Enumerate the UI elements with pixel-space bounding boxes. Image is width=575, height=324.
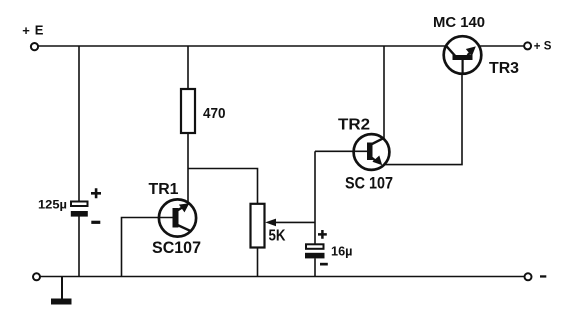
- ground bar: [51, 299, 72, 305]
- svg-text:TR3: TR3: [489, 60, 519, 77]
- minus mark bottom right: [540, 275, 546, 277]
- svg-text:16µ: 16µ: [331, 243, 353, 258]
- wire top rail right of TR3: [478, 45, 524, 47]
- svg-text:SC 107: SC 107: [345, 173, 393, 192]
- minus mark 125u: [91, 221, 100, 224]
- wire 125u top branch: [78, 46, 80, 202]
- terminal +E: [31, 43, 38, 50]
- transistor TR1 emitter diagonal: [177, 207, 184, 211]
- svg-text:MC 140: MC 140: [433, 14, 485, 31]
- terminal bottom left: [33, 273, 40, 280]
- transistor TR2 emitter diagonal: [372, 158, 377, 162]
- transistor TR1 emitter arrow: [179, 203, 189, 212]
- wire 16u bottom: [314, 258, 316, 276]
- svg-text:SC107: SC107: [152, 238, 201, 257]
- transistor TR3 base bar: [453, 55, 473, 60]
- svg-text:+: +: [22, 23, 30, 38]
- svg-text:5K: 5K: [269, 227, 286, 244]
- potentiometer 5K body: [251, 204, 265, 248]
- svg-text:125µ: 125µ: [38, 198, 67, 212]
- wire 125u bottom: [78, 217, 80, 277]
- transistor TR1 base bar: [173, 208, 179, 228]
- transistor TR3 body: [444, 36, 482, 74]
- transistor TR3 emitter arrow: [466, 46, 476, 56]
- transistor TR2 body: [354, 134, 390, 170]
- wire top rail left of TR3: [38, 45, 447, 47]
- wire TR1 base branch: [122, 218, 173, 277]
- capacitor C 125u bottom plate: [71, 211, 88, 217]
- transistor TR2 base bar: [367, 143, 373, 161]
- transistor TR2 collector diagonal: [371, 138, 384, 145]
- wire TR2 emitter to TR3 base: [385, 73, 463, 165]
- arrow pot wiper: [265, 219, 276, 227]
- ground stub: [61, 277, 63, 300]
- transistor TR3 collector diagonal: [446, 46, 456, 57]
- wire TR2 collector to rail: [383, 46, 385, 139]
- wire TR2 base: [315, 150, 367, 152]
- capacitor C 16u top plate: [306, 244, 324, 249]
- terminal +S: [524, 42, 531, 49]
- svg-text:+: +: [534, 41, 541, 53]
- plus mark 125u: [91, 188, 101, 198]
- capacitor C 16u bottom plate: [305, 253, 325, 259]
- transistor TR3 base lead: [462, 60, 464, 74]
- svg-text:S: S: [544, 40, 552, 52]
- plus mark 16u: [318, 230, 327, 239]
- wire pot wiper: [275, 221, 315, 223]
- transistor TR3 emitter diagonal: [468, 53, 471, 56]
- minus mark 16u: [320, 263, 328, 266]
- wire 16u branch vertical: [314, 151, 316, 244]
- wire node to pot top: [188, 169, 258, 204]
- resistor 470: [181, 89, 195, 133]
- transistor TR1 collector diagonal: [178, 225, 192, 231]
- transistor TR2 emitter arrow: [372, 156, 382, 166]
- wire 470 bottom to TR1 collector node: [187, 133, 189, 204]
- svg-text:470: 470: [203, 105, 226, 122]
- capacitor C 125u top plate: [71, 202, 88, 207]
- svg-text:TR1: TR1: [149, 181, 179, 198]
- svg-text:TR2: TR2: [338, 116, 370, 133]
- transistor TR1 body: [159, 199, 196, 236]
- terminal bottom right: [525, 273, 532, 280]
- svg-text:E: E: [35, 23, 44, 38]
- wire 470 top lead: [187, 46, 189, 89]
- wire bottom rail: [40, 276, 524, 278]
- wire pot bottom: [257, 248, 259, 277]
